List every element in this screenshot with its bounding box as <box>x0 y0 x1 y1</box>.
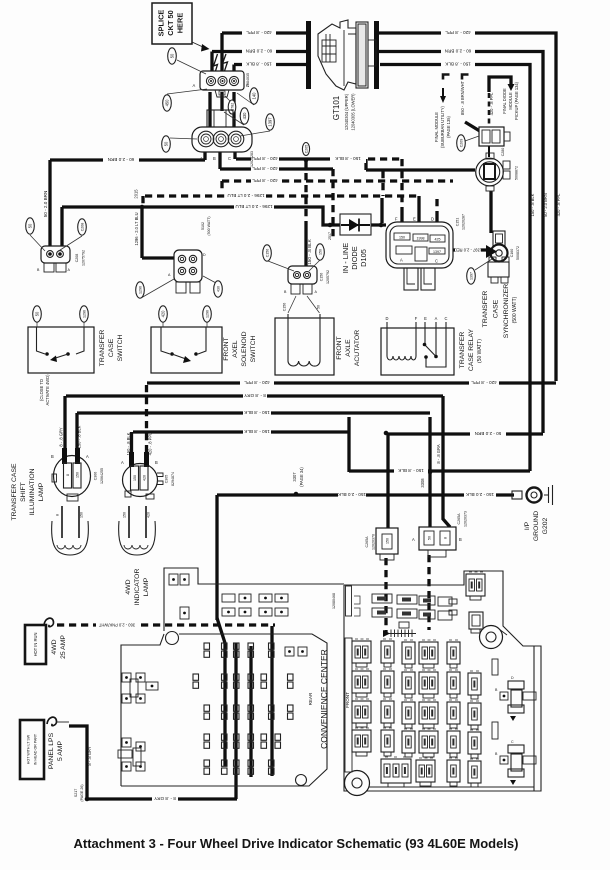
svg-text:E: E <box>413 217 416 222</box>
svg-text:8: 8 <box>444 537 448 539</box>
svg-text:50 - 2.0 BRN: 50 - 2.0 BRN <box>43 191 48 218</box>
svg-text:PANEL LPS: PANEL LPS <box>48 732 55 769</box>
svg-text:D: D <box>203 253 206 257</box>
svg-text:150 - .8 BLK: 150 - .8 BLK <box>126 432 131 455</box>
svg-text:SPLICE: SPLICE <box>157 10 166 37</box>
svg-text:150 - .8 BLK: 150 - .8 BLK <box>245 62 271 67</box>
svg-text:25 AMP: 25 AMP <box>60 635 67 659</box>
svg-text:IN HEAD OR PART: IN HEAD OR PART <box>34 733 38 765</box>
svg-text:12040305 (LOWER): 12040305 (LOWER) <box>351 93 356 131</box>
svg-text:B: B <box>459 537 462 542</box>
svg-text:CASE: CASE <box>108 338 115 357</box>
svg-text:A: A <box>435 316 438 321</box>
svg-text:8: 8 <box>56 514 60 516</box>
svg-text:LAMP: LAMP <box>38 482 45 501</box>
svg-text:8 - .8 GRY: 8 - .8 GRY <box>59 427 64 447</box>
svg-text:5102: 5102 <box>201 222 205 230</box>
svg-text:12020373: 12020373 <box>464 511 468 527</box>
svg-text:420: 420 <box>161 310 166 318</box>
svg-text:(500 WATT): (500 WATT) <box>207 216 211 235</box>
svg-text:5008872: 5008872 <box>515 166 519 180</box>
svg-text:A: A <box>86 454 89 459</box>
svg-text:2015: 2015 <box>134 189 139 199</box>
svg-text:150: 150 <box>319 249 323 255</box>
svg-text:8 - .8 GRA: 8 - .8 GRA <box>436 444 441 464</box>
svg-text:360 - 2.0 PNK/WHT: 360 - 2.0 PNK/WHT <box>98 622 135 627</box>
svg-text:5 AMP: 5 AMP <box>57 741 64 761</box>
svg-text:60 - 2.0 BRN: 60 - 2.0 BRN <box>246 49 273 54</box>
svg-text:8 - .8 GRY: 8 - .8 GRY <box>154 796 176 801</box>
svg-text:50: 50 <box>164 141 169 146</box>
svg-text:150: 150 <box>123 512 127 518</box>
svg-text:TRANSFER CASE: TRANSFER CASE <box>11 463 18 520</box>
svg-text:850 - .8 BRN/WHT: 850 - .8 BRN/WHT <box>460 80 465 115</box>
svg-text:C156: C156 <box>283 303 287 312</box>
svg-text:12080468: 12080468 <box>332 593 336 609</box>
svg-text:AXEL: AXEL <box>232 340 239 358</box>
svg-text:1205792: 1205792 <box>326 270 330 284</box>
svg-text:FINAL MODULE: FINAL MODULE <box>434 112 439 142</box>
svg-text:C156: C156 <box>266 249 270 258</box>
svg-text:150 - 2.0 BLK: 150 - 2.0 BLK <box>465 492 494 497</box>
svg-text:ACUTATOR: ACUTATOR <box>354 330 361 366</box>
svg-text:1296 - 2.0 LT BLU: 1296 - 2.0 LT BLU <box>134 212 139 245</box>
svg-text:FINAL DIODE: FINAL DIODE <box>502 88 507 114</box>
svg-text:420: 420 <box>147 512 151 518</box>
svg-text:C: C <box>246 83 249 88</box>
svg-text:B: B <box>155 460 158 465</box>
svg-text:AXLE: AXLE <box>345 339 352 357</box>
svg-text:A: A <box>200 156 203 161</box>
svg-text:150 - .8 BLK: 150 - .8 BLK <box>334 156 360 161</box>
svg-text:(PAGE 34): (PAGE 34) <box>299 467 304 487</box>
svg-text:420 - .8 PPL: 420 - .8 PPL <box>471 380 497 385</box>
svg-text:D105: D105 <box>359 249 368 267</box>
svg-text:5008372: 5008372 <box>516 246 520 260</box>
svg-text:8 - .8 GRY: 8 - .8 GRY <box>87 746 92 766</box>
svg-text:GT101: GT101 <box>332 95 341 120</box>
svg-text:420 - .8 PPL: 420 - .8 PPL <box>244 380 270 385</box>
svg-text:150 - .8 BLK: 150 - .8 BLK <box>530 193 535 216</box>
svg-text:CKT 50: CKT 50 <box>166 10 175 35</box>
svg-text:150 - .8 BLK: 150 - .8 BLK <box>444 62 470 67</box>
svg-text:420 - .8 PPL: 420 - .8 PPL <box>246 30 272 35</box>
svg-text:SYNCHRONIZER: SYNCHRONIZER <box>503 284 510 338</box>
svg-text:420 - .8 PPL: 420 - .8 PPL <box>445 30 471 35</box>
svg-text:430: 430 <box>217 286 221 292</box>
svg-text:420 - .8 PPL: 420 - .8 PPL <box>252 166 278 171</box>
svg-text:150: 150 <box>133 475 137 481</box>
svg-text:A: A <box>400 258 403 263</box>
svg-text:150 - .8 BLK: 150 - .8 BLK <box>243 429 269 434</box>
svg-text:1296: 1296 <box>206 310 210 318</box>
svg-text:ACTIVATE 4WD): ACTIVATE 4WD) <box>45 374 50 406</box>
svg-text:8294874: 8294874 <box>171 472 175 486</box>
svg-text:1296 - 2.0 LT BLU: 1296 - 2.0 LT BLU <box>227 193 264 198</box>
svg-text:HOT IN RUN: HOT IN RUN <box>33 633 38 657</box>
svg-text:1397: 1397 <box>470 272 474 280</box>
svg-text:(500 WATT): (500 WATT) <box>512 296 518 323</box>
svg-text:TRANSFER: TRANSFER <box>482 291 489 328</box>
svg-text:A: A <box>412 537 415 542</box>
svg-text:(PAGE 135): (PAGE 135) <box>446 115 451 137</box>
svg-text:C208: C208 <box>81 223 85 232</box>
svg-text:450: 450 <box>165 99 170 107</box>
svg-text:HERE: HERE <box>176 13 185 34</box>
svg-text:50: 50 <box>35 311 40 316</box>
svg-text:(SUBURBAN UTILITY): (SUBURBAN UTILITY) <box>440 105 445 147</box>
svg-text:C305: C305 <box>165 475 169 484</box>
svg-text:C: C <box>435 259 438 264</box>
svg-text:150: 150 <box>80 512 84 518</box>
svg-text:50: 50 <box>28 223 33 228</box>
svg-text:REAR: REAR <box>308 692 313 705</box>
svg-text:420 - .8 PPL: 420 - .8 PPL <box>148 432 153 455</box>
svg-text:TRANSFER: TRANSFER <box>99 330 106 367</box>
svg-text:50: 50 <box>317 305 321 309</box>
svg-text:1296: 1296 <box>83 310 87 318</box>
svg-text:12020287: 12020287 <box>462 214 466 230</box>
svg-text:MODULE: MODULE <box>508 92 513 110</box>
svg-text:3307: 3307 <box>292 472 297 482</box>
svg-text:G202: G202 <box>542 517 549 534</box>
svg-text:CASE: CASE <box>493 299 500 318</box>
svg-text:LAMP: LAMP <box>143 577 150 596</box>
svg-text:A: A <box>121 460 124 465</box>
svg-text:420 - .8 PPL: 420 - .8 PPL <box>252 156 278 161</box>
svg-text:TRANSFER: TRANSFER <box>459 332 466 369</box>
svg-text:PICKUP (PAGE 134): PICKUP (PAGE 134) <box>514 81 519 120</box>
svg-text:C265A: C265A <box>365 536 369 548</box>
svg-text:FRONT: FRONT <box>345 692 350 708</box>
svg-text:SWITCH: SWITCH <box>117 335 124 362</box>
svg-text:C: C <box>445 316 448 321</box>
svg-text:3308: 3308 <box>420 478 425 488</box>
svg-text:425: 425 <box>435 238 441 242</box>
svg-text:C205: C205 <box>305 145 309 154</box>
svg-text:150: 150 <box>76 472 80 478</box>
svg-text:(CLOSE TO: (CLOSE TO <box>39 379 44 401</box>
svg-text:IN - LINE: IN - LINE <box>341 243 350 273</box>
svg-text:150 - .8 BLK: 150 - .8 BLK <box>77 425 82 448</box>
svg-text:50 - 2.0 BRN: 50 - 2.0 BRN <box>475 431 502 436</box>
svg-text:1296 - 2.0 LT BLU: 1296 - 2.0 LT BLU <box>235 204 272 209</box>
svg-text:I/P: I/P <box>524 521 531 530</box>
svg-text:150 - .8 BLK: 150 - .8 BLK <box>397 468 423 473</box>
svg-text:150: 150 <box>399 236 405 240</box>
svg-text:FRONT: FRONT <box>336 336 343 359</box>
svg-text:8 - .8 GRY: 8 - .8 GRY <box>244 393 266 398</box>
svg-text:4WD: 4WD <box>51 639 58 654</box>
svg-text:150 - 2.0 BLK: 150 - 2.0 BLK <box>337 492 366 497</box>
svg-text:SOLENOID: SOLENOID <box>241 331 248 366</box>
svg-text:C306: C306 <box>94 472 98 481</box>
svg-text:150 - .8 BLK: 150 - .8 BLK <box>243 410 269 415</box>
svg-text:Attachment 3 - Four Wheel Driv: Attachment 3 - Four Wheel Drive Indicato… <box>74 836 519 851</box>
svg-text:12040304 (UPPER): 12040304 (UPPER) <box>344 93 349 130</box>
svg-text:12020370: 12020370 <box>372 534 376 550</box>
svg-text:A: A <box>193 83 196 88</box>
svg-text:D: D <box>511 676 514 680</box>
svg-text:ILLUMINATION: ILLUMINATION <box>29 468 36 515</box>
svg-text:D: D <box>431 217 434 222</box>
svg-text:INDICATOR: INDICATOR <box>134 569 141 606</box>
svg-text:12020283: 12020283 <box>250 151 254 167</box>
svg-text:(PAGE 26): (PAGE 26) <box>80 784 84 801</box>
svg-text:E: E <box>424 316 427 321</box>
svg-text:150: 150 <box>386 538 390 544</box>
svg-text:SHIFT: SHIFT <box>20 482 27 502</box>
svg-text:B: B <box>51 454 54 459</box>
svg-text:B: B <box>213 156 216 161</box>
svg-text:DIODE: DIODE <box>350 246 359 269</box>
svg-text:12075792: 12075792 <box>82 250 86 266</box>
svg-text:50: 50 <box>170 53 175 58</box>
svg-text:C: C <box>511 740 514 744</box>
svg-text:GROUND: GROUND <box>533 511 540 541</box>
svg-text:430: 430 <box>242 112 247 120</box>
svg-text:1397: 1397 <box>268 117 273 127</box>
svg-text:2517: 2517 <box>328 232 332 240</box>
svg-text:C265A: C265A <box>457 513 461 525</box>
svg-text:D: D <box>386 316 389 321</box>
svg-text:420 - .8 PPL: 420 - .8 PPL <box>489 92 494 115</box>
svg-text:(50 WATT): (50 WATT) <box>477 339 483 363</box>
svg-text:HOT WITH LT SW: HOT WITH LT SW <box>27 734 31 764</box>
svg-text:8: 8 <box>66 474 70 476</box>
svg-text:1397: 1397 <box>433 250 441 254</box>
svg-text:C: C <box>228 156 231 161</box>
svg-text:CASE RELAY: CASE RELAY <box>468 328 475 371</box>
svg-text:C209: C209 <box>460 139 464 148</box>
svg-text:SWITCH: SWITCH <box>250 336 257 363</box>
svg-text:420 - .8 PPL: 420 - .8 PPL <box>252 178 278 183</box>
svg-text:C280: C280 <box>501 148 505 157</box>
svg-text:150 - .8 BLK: 150 - .8 BLK <box>307 238 312 264</box>
svg-text:C160: C160 <box>510 249 514 258</box>
svg-text:1296: 1296 <box>139 286 143 294</box>
svg-text:C156: C156 <box>320 273 324 282</box>
svg-text:420: 420 <box>143 475 147 481</box>
svg-text:1397 - 2.0 RED: 1397 - 2.0 RED <box>454 247 482 252</box>
svg-text:12064255: 12064255 <box>100 468 104 484</box>
svg-text:4WD: 4WD <box>125 579 132 594</box>
svg-text:140: 140 <box>252 92 257 100</box>
svg-text:FRONT: FRONT <box>223 337 230 360</box>
svg-text:C151: C151 <box>456 218 460 227</box>
svg-text:60 - 2.0 BRN: 60 - 2.0 BRN <box>445 49 472 54</box>
svg-text:60 - 2.0 BRN: 60 - 2.0 BRN <box>108 157 135 162</box>
svg-text:1998: 1998 <box>417 237 425 241</box>
svg-text:C208: C208 <box>75 254 79 263</box>
svg-text:50: 50 <box>428 536 432 540</box>
svg-text:S217: S217 <box>74 789 78 797</box>
svg-text:50 - 2.0 BRN: 50 - 2.0 BRN <box>543 193 548 217</box>
svg-text:420 - .8 PPL: 420 - .8 PPL <box>556 193 561 216</box>
